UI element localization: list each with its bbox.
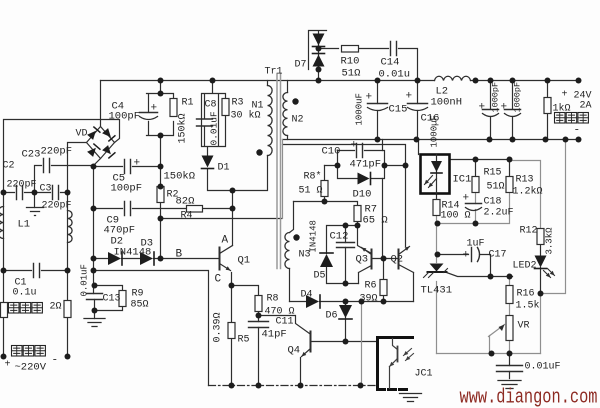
potentiometer VR wiper arrowhead bbox=[499, 325, 505, 332]
svg-text:C: C bbox=[215, 274, 222, 286]
wire Q2 emitter corner bbox=[413, 273, 415, 302]
resistor R7 body bbox=[354, 206, 361, 222]
TL431 shunt regulator symbol bbox=[430, 264, 444, 272]
junction bbox=[538, 291, 544, 297]
inductor L1 left winding bbox=[0, 207, 4, 239]
junction bbox=[343, 281, 349, 287]
junction bbox=[487, 137, 493, 143]
junction bbox=[158, 78, 164, 84]
junction bbox=[435, 252, 441, 258]
wire VR wiper bbox=[489, 325, 505, 354]
transistor Q1 collector arm bbox=[220, 246, 233, 254]
svg-text:Q4: Q4 bbox=[288, 345, 301, 357]
svg-text:1000pF: 1000pF bbox=[513, 82, 523, 113]
wire Q3/Q2 base row bbox=[373, 258, 399, 260]
wire C19 leads bbox=[509, 354, 511, 379]
wire x=160 vertical bbox=[160, 81, 162, 259]
ground under C19 bbox=[498, 381, 521, 389]
wire Q2 collector drop bbox=[405, 166, 407, 247]
wire output cap2 leads bbox=[512, 81, 514, 140]
svg-text:2Ω: 2Ω bbox=[50, 302, 62, 313]
phase dot N3 bbox=[293, 234, 299, 240]
ground under C13 bbox=[84, 319, 105, 327]
wire AC leg left bbox=[68, 143, 87, 193]
wire Q4 emitter drop bbox=[300, 358, 302, 386]
svg-text:85Ω: 85Ω bbox=[131, 300, 149, 311]
junction bbox=[32, 190, 38, 196]
capacitor C19 plates bbox=[497, 366, 523, 372]
wire C13/R9 cluster bbox=[94, 271, 123, 319]
svg-text:N1: N1 bbox=[252, 101, 264, 112]
svg-text:150kΩ: 150kΩ bbox=[177, 113, 189, 143]
svg-text:R4: R4 bbox=[181, 211, 193, 222]
diode D6 bbox=[339, 305, 352, 318]
junction bbox=[158, 133, 164, 139]
wire node C drop bbox=[231, 273, 233, 386]
junction bbox=[473, 221, 479, 227]
svg-text:2A: 2A bbox=[580, 101, 592, 112]
svg-text:www.diangon.com: www.diangon.com bbox=[460, 387, 598, 408]
capacitor C9 plates bbox=[125, 202, 131, 216]
LED2 diode bbox=[535, 256, 547, 268]
svg-text:R8: R8 bbox=[267, 294, 279, 305]
svg-text:VR: VR bbox=[518, 321, 530, 332]
junction bbox=[355, 223, 361, 229]
wire feedback tap y=144 bbox=[283, 145, 406, 166]
svg-text:+: + bbox=[501, 102, 508, 114]
wire R10/C14 row y=48 bbox=[319, 49, 418, 81]
junction bbox=[375, 137, 381, 143]
junction bbox=[343, 299, 349, 305]
wire R8* row y=201 bbox=[294, 202, 358, 206]
wire D4/R6 row y=301 bbox=[290, 301, 414, 303]
shield dash-dot line bbox=[209, 385, 378, 387]
resistor R2 body bbox=[157, 187, 164, 203]
phototransistor JC1 collector bbox=[393, 339, 398, 350]
diode D2 bbox=[108, 252, 121, 265]
svg-text:A: A bbox=[222, 235, 229, 247]
junction bbox=[563, 137, 569, 143]
resistor R3 body bbox=[222, 99, 229, 116]
phase dot N1 bbox=[256, 149, 262, 155]
phototransistor JC1 photo arrow 1 bbox=[404, 349, 412, 356]
svg-text:0.01uF: 0.01uF bbox=[209, 111, 220, 146]
wire fuse lead bbox=[3, 318, 5, 357]
capacitor C23 plates bbox=[44, 159, 50, 173]
svg-text:C23: C23 bbox=[22, 149, 41, 161]
wire C23 row y=165 bbox=[35, 166, 94, 193]
svg-text:C18: C18 bbox=[484, 197, 502, 208]
transistor Q2 lower arm bbox=[399, 265, 414, 273]
svg-text:220pF: 220pF bbox=[7, 180, 37, 191]
wire right input leg bbox=[67, 193, 69, 357]
fuse FU (insurance tube) body bbox=[1, 303, 8, 318]
shield box around JC1 bbox=[378, 338, 413, 390]
capacitor C1 plates bbox=[34, 264, 40, 278]
svg-text:39Ω: 39Ω bbox=[360, 294, 378, 305]
svg-text:R1: R1 bbox=[182, 98, 194, 109]
svg-text:D10: D10 bbox=[353, 189, 372, 201]
junction bbox=[298, 383, 304, 389]
wire R8 out to Q4 bbox=[259, 316, 310, 334]
capacitor output cap2 1000pF plates bbox=[505, 109, 521, 111]
wire C8/R3 loop bbox=[202, 81, 226, 159]
svg-text:1000uF: 1000uF bbox=[355, 93, 365, 125]
LED2 emission arrow 1 bbox=[544, 271, 551, 278]
wire C1 row y=270 bbox=[4, 270, 68, 272]
wire C16 leads bbox=[417, 81, 419, 140]
wire AC leg right via top loop bbox=[4, 120, 120, 303]
capacitor C13 plates bbox=[87, 294, 103, 300]
svg-text:R3: R3 bbox=[232, 98, 244, 109]
svg-text:+: + bbox=[5, 360, 11, 371]
junction bbox=[488, 78, 494, 84]
junction bbox=[375, 78, 381, 84]
svg-text:D1: D1 bbox=[218, 163, 230, 174]
svg-text:+: + bbox=[151, 103, 158, 115]
wire R16/VR chain bbox=[509, 277, 511, 354]
label output terminal label bbox=[555, 113, 566, 124]
transistor Q3 base bar bbox=[371, 250, 373, 269]
wire opto row y=159 bbox=[450, 160, 510, 177]
wire LED2 node link bbox=[540, 294, 542, 354]
junction bbox=[92, 308, 98, 314]
resistor R12 body bbox=[537, 229, 544, 245]
svg-text:D6: D6 bbox=[326, 311, 338, 322]
junction bbox=[359, 299, 365, 305]
wire bridge top drop bbox=[100, 81, 102, 127]
junction bbox=[256, 383, 262, 389]
svg-text:R6: R6 bbox=[365, 281, 377, 292]
wire R7 bottom bbox=[357, 222, 359, 226]
svg-text:51Ω: 51Ω bbox=[487, 182, 505, 193]
optocoupler IC1 emission arrow 1 bbox=[425, 176, 433, 185]
junction bbox=[510, 137, 516, 143]
svg-text:C3: C3 bbox=[40, 184, 52, 195]
bridge diode bottom-left bbox=[87, 148, 96, 157]
wire R6 leads bbox=[383, 259, 385, 302]
svg-text:D5: D5 bbox=[314, 271, 326, 282]
phototransistor JC1 emitter lead bbox=[389, 367, 391, 389]
transistor Q2 base bar bbox=[398, 250, 400, 269]
svg-text:51 Ω: 51 Ω bbox=[299, 186, 323, 197]
junction bbox=[256, 313, 262, 319]
capacitor C16 plates bbox=[408, 103, 428, 105]
bridge diode top-left bbox=[87, 131, 96, 140]
resistor R14 body bbox=[433, 200, 440, 216]
junction bbox=[414, 137, 420, 143]
transistor Q4 base bar bbox=[310, 332, 312, 352]
svg-text:B: B bbox=[176, 249, 183, 261]
phototransistor JC1 emitter arrow bbox=[390, 359, 398, 367]
svg-text:R13: R13 bbox=[516, 175, 534, 186]
bridge diode top-right bbox=[102, 128, 111, 137]
optocoupler IC1 LED lead bbox=[436, 155, 438, 194]
junction bbox=[473, 157, 479, 163]
svg-text:D4: D4 bbox=[301, 290, 313, 301]
resistor R8* body bbox=[321, 181, 328, 197]
junction bbox=[229, 383, 235, 389]
svg-text:C13: C13 bbox=[103, 294, 121, 305]
transistor Q3 collector arrow up-left bbox=[362, 248, 372, 255]
transistor Q4 emitter arrow bbox=[302, 349, 311, 357]
diode D1 bbox=[202, 156, 214, 168]
junction bbox=[488, 274, 494, 280]
output + terminal bbox=[576, 78, 582, 84]
optocoupler IC1 LED bbox=[431, 161, 442, 172]
junction bbox=[1, 190, 7, 196]
svg-text:100pF: 100pF bbox=[109, 111, 141, 123]
svg-text:Q3: Q3 bbox=[356, 254, 369, 266]
transistor Q1 emitter arrow bbox=[220, 264, 231, 271]
svg-text:100 Ω: 100 Ω bbox=[441, 211, 471, 222]
svg-text:+: + bbox=[463, 193, 470, 205]
wire C10/D10 loop bbox=[325, 151, 406, 179]
svg-text:Q1: Q1 bbox=[238, 255, 251, 267]
wire C9/R4 row y=208 bbox=[94, 208, 233, 210]
svg-text:C14: C14 bbox=[381, 57, 400, 69]
wire IC1 anode lead bbox=[418, 140, 420, 155]
svg-text:~220V: ~220V bbox=[15, 362, 47, 374]
wire R13 bottom to y=223 bbox=[476, 193, 510, 224]
input + terminal bbox=[1, 354, 7, 360]
transformer winding N2 bbox=[283, 93, 288, 136]
phototransistor JC1 base bar bbox=[397, 347, 399, 362]
svg-text:82Ω: 82Ω bbox=[176, 196, 195, 208]
svg-text:R15: R15 bbox=[484, 168, 502, 179]
junction bbox=[358, 383, 364, 389]
svg-text:-: - bbox=[52, 355, 59, 367]
svg-text:TL431: TL431 bbox=[421, 285, 453, 297]
wire R8* leads bbox=[324, 166, 326, 202]
junction bbox=[65, 268, 71, 274]
junction bbox=[1, 268, 7, 274]
resistor 2ohm body bbox=[64, 301, 71, 318]
wire bridge bottom to C5 node bbox=[94, 159, 101, 271]
wire top +rail y=80 bbox=[101, 80, 579, 82]
wire TL431 anode drop bbox=[436, 282, 438, 354]
svg-text:R8*: R8* bbox=[304, 171, 322, 183]
diode D10 bbox=[358, 173, 370, 185]
optocoupler IC1 emission arrow 2 bbox=[429, 179, 437, 188]
junction bbox=[91, 268, 97, 274]
capacitor C11 plates bbox=[249, 322, 269, 328]
junction bbox=[381, 256, 387, 262]
wire C18 branch bbox=[438, 193, 476, 224]
svg-text:C8: C8 bbox=[205, 100, 217, 111]
junction bbox=[415, 78, 421, 84]
junction D7 bbox=[316, 67, 322, 73]
wire R12 feed bbox=[510, 161, 541, 229]
svg-text:D7: D7 bbox=[295, 60, 307, 71]
capacitor C14 plates bbox=[391, 42, 397, 56]
junction bbox=[158, 164, 164, 170]
wire C4/R1 loop bbox=[147, 94, 174, 136]
junction bbox=[322, 199, 328, 205]
wire C17 row y=254 bbox=[438, 255, 491, 277]
resistor R8 body bbox=[255, 296, 262, 312]
junction bbox=[473, 78, 479, 84]
capacitor C2 plates bbox=[17, 186, 23, 200]
wire R14 to TL431 bbox=[436, 216, 438, 263]
wire Y-cap ground stub bbox=[34, 193, 36, 208]
svg-text:+: + bbox=[366, 92, 373, 104]
wire Q3 collector drop bbox=[358, 226, 372, 254]
svg-text:471pF: 471pF bbox=[350, 159, 382, 171]
wire D7 bracket bbox=[309, 31, 327, 81]
svg-text:3.3kΩ: 3.3kΩ bbox=[545, 227, 555, 255]
optocoupler IC1 box bbox=[421, 155, 450, 194]
junction bbox=[91, 164, 97, 170]
phase dot N2 bbox=[292, 98, 298, 104]
junction bbox=[343, 223, 349, 229]
transformer winding N3 bbox=[285, 233, 290, 269]
wire output sense drop x=565 bbox=[541, 140, 566, 294]
diode D5 bbox=[320, 254, 333, 267]
svg-text:C15: C15 bbox=[389, 104, 408, 116]
capacitor C4 plates bbox=[140, 112, 158, 114]
junction bbox=[91, 256, 97, 262]
resistor R6 body bbox=[380, 280, 387, 296]
junction bbox=[158, 91, 164, 97]
transistor Q1 base bar bbox=[219, 248, 221, 270]
wire x=232 node A drop bbox=[232, 191, 234, 246]
output - terminal bbox=[576, 137, 582, 143]
svg-text:IN4148: IN4148 bbox=[114, 247, 152, 259]
svg-text:220pF: 220pF bbox=[41, 146, 73, 158]
wire TL431 ref row y=276 bbox=[447, 273, 513, 277]
wire D6 leads bbox=[345, 302, 347, 342]
wire 1k leads bbox=[547, 81, 549, 140]
junction bbox=[230, 206, 236, 212]
svg-text:-: - bbox=[574, 125, 581, 137]
ground under C2/C3 bbox=[27, 208, 44, 216]
capacitor C18 plates bbox=[466, 203, 482, 205]
junction bbox=[543, 137, 549, 143]
svg-text:VD: VD bbox=[76, 129, 88, 140]
resistor R1 body bbox=[170, 99, 177, 117]
LED2 emission arrow 2 bbox=[548, 269, 555, 276]
junction bbox=[435, 221, 441, 227]
svg-text:2.2uF: 2.2uF bbox=[484, 208, 514, 219]
svg-text:150kΩ: 150kΩ bbox=[164, 171, 196, 183]
svg-text:1uF: 1uF bbox=[467, 239, 485, 250]
svg-text:L1: L1 bbox=[18, 219, 31, 231]
potentiometer VR body bbox=[506, 316, 513, 341]
svg-text:R10: R10 bbox=[341, 56, 360, 68]
svg-text:C2: C2 bbox=[3, 161, 15, 172]
svg-text:C10: C10 bbox=[322, 146, 341, 158]
diode D7 lower bbox=[313, 55, 325, 67]
svg-text:N2: N2 bbox=[292, 115, 304, 126]
wire N2 top lead bbox=[287, 81, 289, 93]
junction bbox=[382, 163, 388, 169]
svg-text:IN4148: IN4148 bbox=[309, 220, 319, 252]
svg-text:IC1: IC1 bbox=[453, 174, 472, 186]
wire output cap1 leads bbox=[490, 81, 492, 140]
wire R12 to LED2 bbox=[540, 245, 542, 257]
wire node C to R8 bbox=[232, 286, 259, 386]
svg-text:1000pF: 1000pF bbox=[491, 82, 501, 113]
svg-text:C17: C17 bbox=[489, 250, 507, 261]
junction bbox=[335, 163, 341, 169]
diode D3 bbox=[140, 252, 153, 265]
wire isolation feedback drop x=282 bbox=[282, 140, 284, 219]
resistor R5 body bbox=[228, 323, 235, 339]
wire feedback row y=218 bbox=[161, 218, 282, 220]
inductor L2 bbox=[435, 76, 471, 80]
wire D2/D3 base row y=258 bbox=[94, 258, 219, 260]
wire shield drop x=361 bbox=[361, 302, 363, 386]
wire R13 top bbox=[509, 160, 511, 177]
label input terminal label bbox=[12, 346, 23, 357]
ground under JC1 box bbox=[400, 394, 422, 402]
transformer winding N1 bbox=[268, 86, 273, 156]
resistor R13 body bbox=[506, 177, 513, 193]
junction bbox=[92, 283, 98, 289]
wire N3 top lead bbox=[290, 202, 294, 233]
junction bbox=[381, 299, 387, 305]
junction bbox=[403, 163, 409, 169]
junction D7 bbox=[316, 46, 322, 52]
wire N2 bottom lead bbox=[287, 136, 289, 140]
wire LED2 cathode drop bbox=[540, 268, 542, 294]
svg-text:220pF: 220pF bbox=[42, 201, 72, 212]
svg-text:R16: R16 bbox=[517, 289, 535, 300]
resistor R10 body bbox=[342, 46, 359, 53]
junction bbox=[65, 190, 71, 196]
svg-text:1.5k: 1.5k bbox=[516, 300, 540, 312]
svg-text:100nH: 100nH bbox=[431, 97, 463, 109]
junction bbox=[507, 274, 513, 280]
svg-text:+: + bbox=[479, 102, 486, 114]
wire IC1 cathode to R14 bbox=[436, 194, 438, 200]
svg-text:1000µF: 1000µF bbox=[430, 115, 440, 147]
wire Q3 emitter drop bbox=[359, 266, 372, 284]
junction bbox=[91, 206, 97, 212]
resistor R4 body 82ohm bbox=[187, 206, 203, 213]
junction bbox=[489, 351, 495, 357]
svg-text:LED2: LED2 bbox=[513, 261, 537, 272]
svg-text:0.39Ω: 0.39Ω bbox=[213, 312, 224, 342]
capacitor C10 plates bbox=[357, 144, 363, 158]
diode D7 upper bbox=[313, 34, 325, 46]
wire secondary 0V rail y=139 bbox=[283, 139, 579, 141]
junction bbox=[316, 78, 322, 84]
junction bbox=[158, 184, 164, 190]
svg-text:65 Ω: 65 Ω bbox=[363, 215, 388, 227]
junction bbox=[545, 78, 551, 84]
junction bbox=[210, 78, 216, 84]
junction bbox=[158, 256, 164, 262]
wire C15 leads bbox=[377, 81, 379, 140]
capacitor output cap1 1000pF plates bbox=[483, 109, 499, 111]
inductor L1 right winding bbox=[68, 211, 73, 243]
svg-text:0.01uF: 0.01uF bbox=[525, 362, 561, 373]
svg-text:R5: R5 bbox=[238, 335, 250, 346]
svg-text:51Ω: 51Ω bbox=[342, 68, 361, 80]
resistor R15 body bbox=[472, 177, 479, 193]
diode D4 bbox=[306, 295, 319, 308]
phototransistor JC1 photo arrow 2 bbox=[406, 354, 414, 361]
svg-text:41pF: 41pF bbox=[262, 329, 287, 341]
resistor R16 body bbox=[506, 286, 513, 304]
wire C2/C3 row y=192 bbox=[4, 192, 68, 194]
transformer Tr1 core bbox=[277, 74, 281, 269]
svg-text:0.1u: 0.1u bbox=[13, 288, 37, 299]
wire C12/D5 loop bbox=[327, 226, 359, 284]
wire C5 row y=166 bbox=[94, 166, 161, 168]
